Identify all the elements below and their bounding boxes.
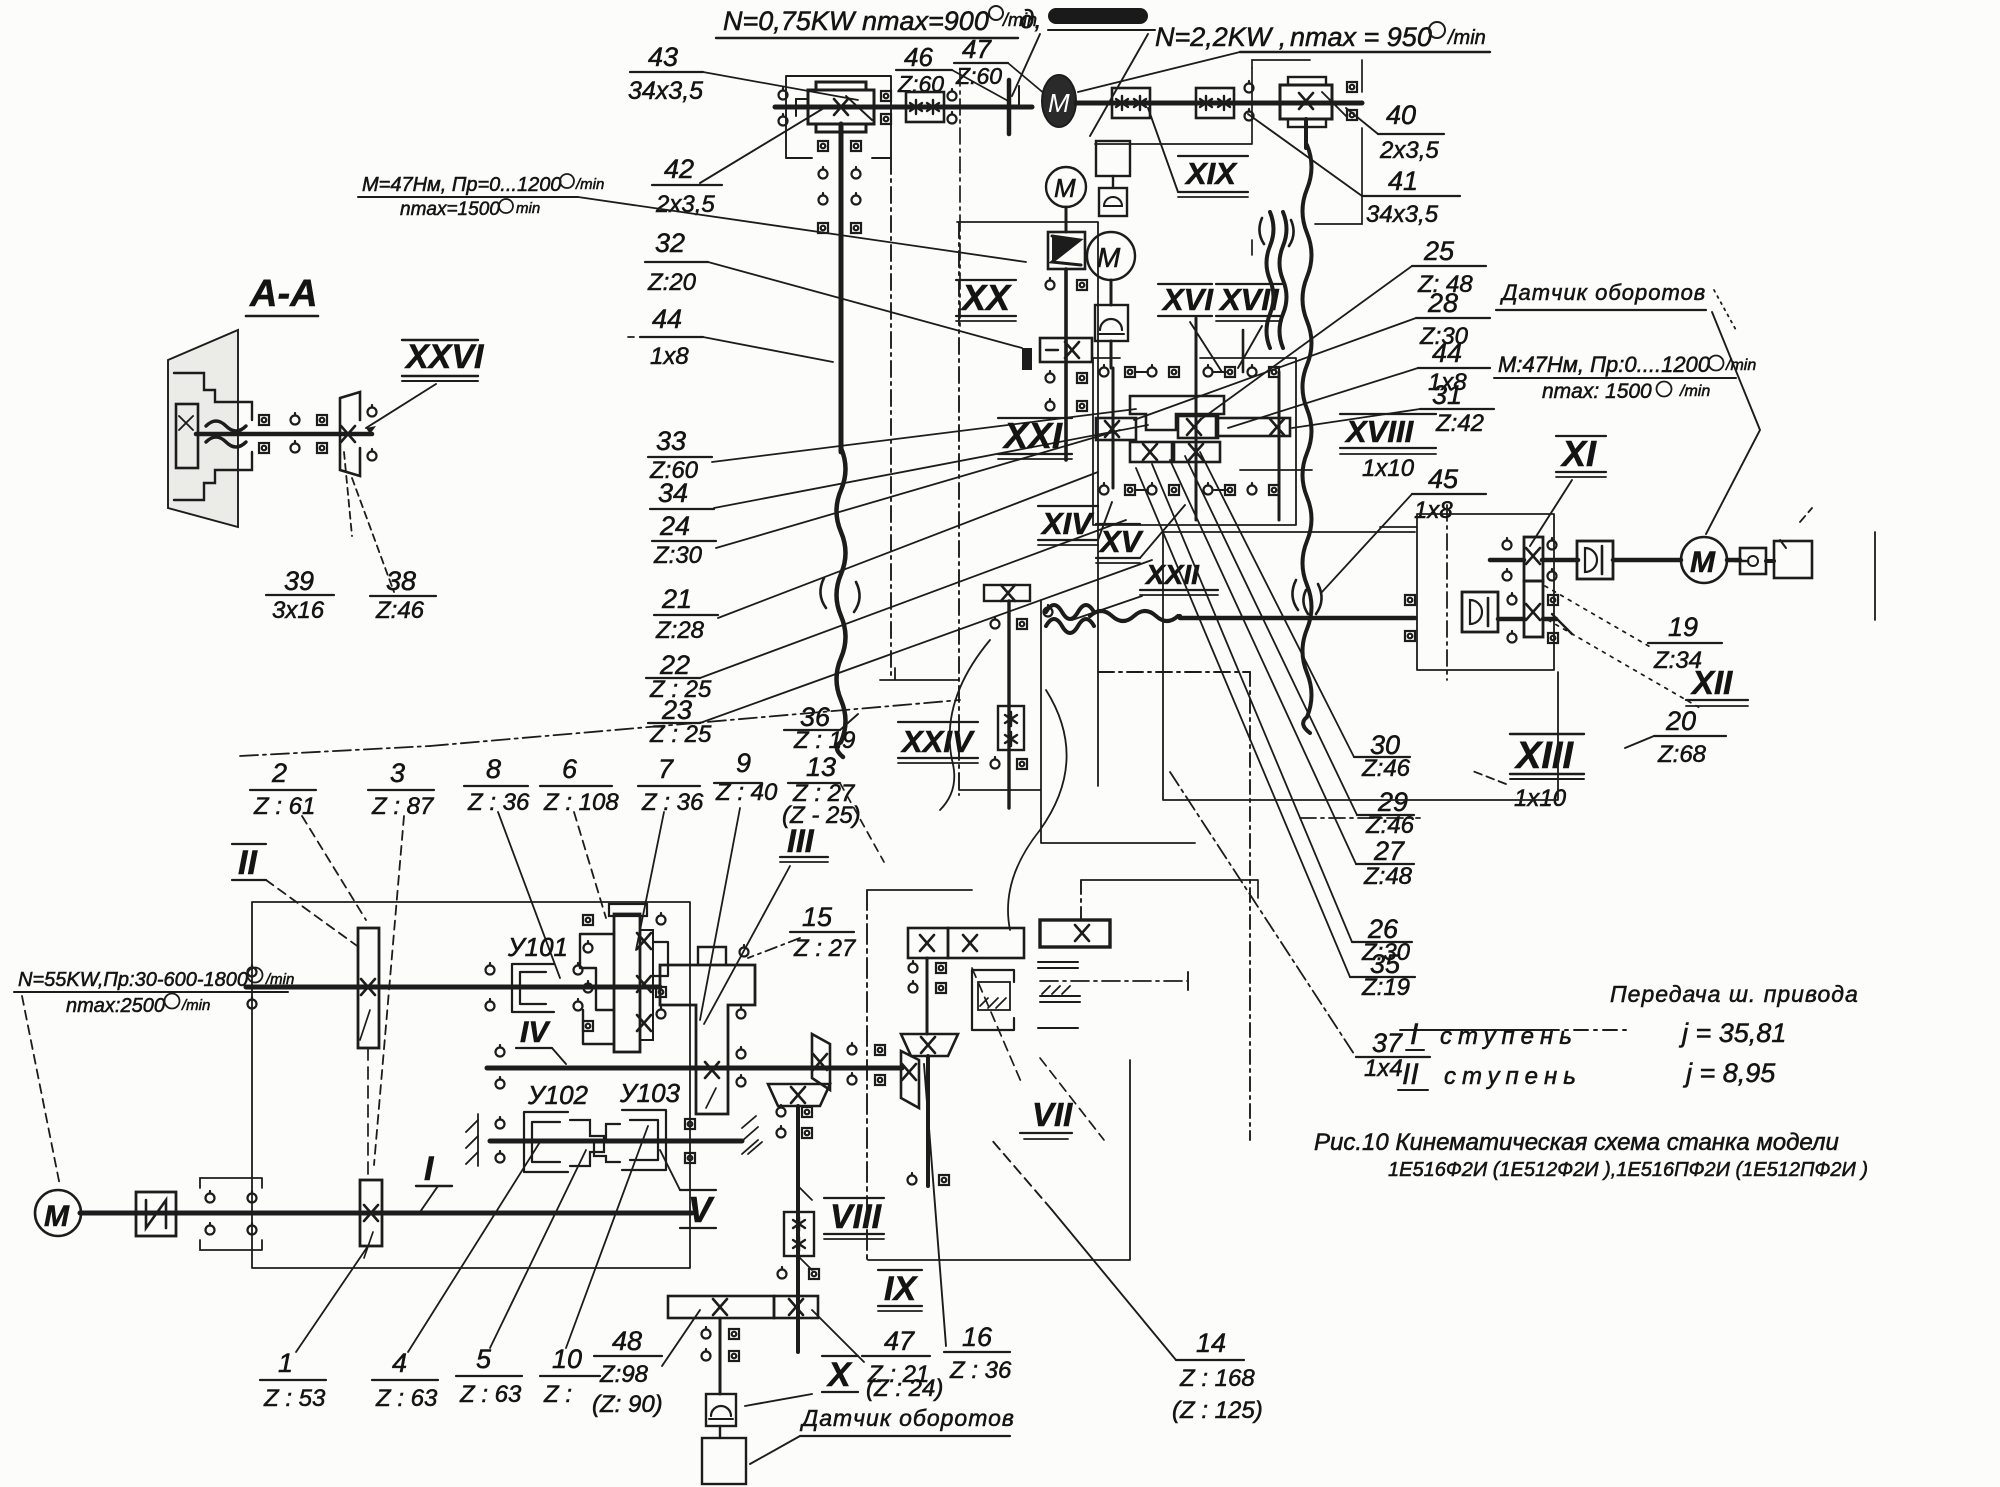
end box bbox=[1774, 541, 1812, 578]
square box below shaft bbox=[1096, 141, 1130, 176]
label 46/Z:60 bbox=[897, 42, 944, 97]
M motor outline circle left bbox=[1046, 167, 1086, 207]
svg-text:Датчик оборотов: Датчик оборотов bbox=[799, 1405, 1015, 1431]
motor M filled ellipse bbox=[1042, 75, 1076, 127]
coupling on VIII bbox=[784, 1212, 814, 1256]
sensor box small bbox=[1099, 188, 1127, 216]
svg-text:43: 43 bbox=[648, 42, 678, 72]
bearings on I bbox=[206, 1191, 215, 1203]
shaft III horizontal bbox=[700, 1066, 902, 1071]
housing thin box around 2.2kw unit bbox=[1252, 60, 1362, 255]
svg-text:N=2,2KW ,: N=2,2KW , bbox=[1155, 22, 1286, 52]
M=47Hm right text bbox=[1498, 352, 1756, 403]
svg-text:Передача ш. привода: Передача ш. привода bbox=[1610, 981, 1859, 1007]
svg-text:37: 37 bbox=[1372, 1028, 1403, 1058]
svg-text:A-A: A-A bbox=[249, 273, 318, 315]
long leader from M=47 text bbox=[578, 197, 1026, 262]
coupling asterisk box 46 bbox=[906, 92, 944, 122]
svg-text:Z:48: Z:48 bbox=[1363, 863, 1413, 890]
svg-text:M=47Hм, Пр=0...1200: M=47Hм, Пр=0...1200 bbox=[362, 174, 561, 196]
XVI XVII labels bbox=[1161, 282, 1280, 317]
text N=0,75KW nmax=900/min bbox=[723, 6, 1037, 36]
svg-text:У101: У101 bbox=[507, 932, 568, 962]
svg-text:nmax=1500: nmax=1500 bbox=[400, 199, 500, 220]
label 48 bbox=[592, 1326, 663, 1418]
svg-text:41: 41 bbox=[1388, 166, 1418, 196]
Датчик оборотов bottom text bbox=[799, 1405, 1015, 1431]
label 39/3x16 bbox=[272, 566, 325, 624]
coupling asterisk box 2 bbox=[1196, 88, 1234, 118]
svg-text:(Z: 90): (Z: 90) bbox=[592, 1391, 663, 1418]
svg-text:1x10: 1x10 bbox=[1362, 455, 1415, 482]
label power text top bbox=[358, 6, 1152, 757]
svg-text:Z : 36: Z : 36 bbox=[641, 789, 704, 816]
label M=47Nm top-left bbox=[362, 174, 604, 220]
leader to sensor bbox=[745, 1394, 812, 1406]
wall bar 47 bbox=[1007, 80, 1012, 134]
svg-text:ступень: ступень bbox=[1440, 1023, 1578, 1050]
label 30/Z:46 bbox=[1361, 730, 1411, 782]
gear 2 on shaft II bbox=[358, 928, 379, 1048]
У102 bbox=[527, 1080, 589, 1110]
svg-text:21: 21 bbox=[661, 584, 692, 614]
bearings right on II bbox=[486, 963, 495, 975]
label 47 bbox=[866, 1326, 943, 1402]
shaft XXIV vertical bbox=[1007, 601, 1010, 808]
shaft below brake bbox=[1064, 269, 1068, 460]
svg-text:31: 31 bbox=[1432, 380, 1462, 410]
svg-text:M:47Hм, Пр:0....1200: M:47Hм, Пр:0....1200 bbox=[1498, 352, 1711, 377]
motor M bbox=[35, 1190, 81, 1236]
leader from датчик text top bbox=[1714, 290, 1736, 330]
leader 47 bbox=[1008, 63, 1046, 95]
svg-text:У102: У102 bbox=[527, 1080, 589, 1110]
label 41/34x3,5 bbox=[1366, 166, 1439, 228]
svg-text:Z:20: Z:20 bbox=[647, 269, 697, 296]
svg-text:/min: /min bbox=[1679, 383, 1710, 400]
bearing rows on vertical shaft bbox=[818, 141, 828, 151]
svg-text:6: 6 bbox=[562, 754, 578, 784]
shaft 0.75kw horizontal bbox=[775, 105, 1032, 110]
shaft XII long bbox=[1090, 611, 1180, 621]
leader dashes from labels bbox=[266, 880, 360, 948]
gear 1 on shaft I bbox=[360, 1180, 382, 1246]
svg-text:V: V bbox=[688, 1189, 715, 1230]
long dash-dot diagonal through center bbox=[430, 700, 960, 746]
svg-text:47: 47 bbox=[884, 1326, 915, 1356]
svg-text:33: 33 bbox=[656, 426, 686, 456]
svg-text:nmax=900: nmax=900 bbox=[862, 6, 989, 36]
gear B bbox=[1096, 418, 1136, 440]
leaders from cluster down-right (to 30,29,27,26 labels) bbox=[1200, 452, 1354, 757]
svg-text:(Z : 125): (Z : 125) bbox=[1172, 1397, 1263, 1424]
bottom labels 1 4 5 10 bbox=[263, 1344, 582, 1412]
I label bbox=[424, 1150, 435, 1188]
T-gear block on III/IV bbox=[660, 965, 755, 1114]
bearing pair right of gear bbox=[881, 91, 891, 101]
XXI label bbox=[1002, 415, 1063, 456]
svg-text:Z:68: Z:68 bbox=[1657, 741, 1707, 768]
M motor circle 2 bbox=[1087, 232, 1135, 280]
label 16 bbox=[949, 1322, 1012, 1384]
big curved lines around XXIV bbox=[1008, 690, 1067, 930]
svg-text:28: 28 bbox=[1427, 288, 1458, 318]
svg-text:Z : 27: Z : 27 bbox=[793, 935, 857, 962]
X label bbox=[826, 1356, 853, 1394]
svg-text:19: 19 bbox=[1668, 612, 1698, 642]
svg-text:1: 1 bbox=[278, 1348, 293, 1378]
svg-text:Z:46: Z:46 bbox=[1361, 755, 1411, 782]
svg-text:4: 4 bbox=[392, 1348, 407, 1378]
svg-text:j = 35,81: j = 35,81 bbox=[1678, 1018, 1786, 1048]
V label bbox=[688, 1189, 715, 1230]
second gear bar thick bbox=[1040, 920, 1110, 947]
label 29/Z:46 bbox=[1365, 787, 1415, 839]
svg-text:8: 8 bbox=[486, 754, 501, 784]
svg-text:46: 46 bbox=[904, 42, 933, 72]
shaft A-A bbox=[196, 432, 372, 437]
У101 bbox=[507, 932, 568, 962]
svg-text:2x3,5: 2x3,5 bbox=[1379, 137, 1439, 164]
DI box on XII bbox=[1462, 592, 1498, 632]
svg-text:Рис.10 Кинематическая схема: Рис.10 Кинематическая схема станка модел… bbox=[1314, 1129, 1839, 1156]
leader XXVI bbox=[366, 384, 436, 428]
motor XI bbox=[1681, 537, 1727, 583]
svg-text:15: 15 bbox=[802, 902, 833, 932]
svg-text:Z : 53: Z : 53 bbox=[263, 1385, 326, 1412]
VIII label bbox=[830, 1198, 883, 1236]
svg-text:/min: /min bbox=[575, 176, 604, 193]
svg-text:XVI: XVI bbox=[1161, 282, 1214, 317]
svg-text:I: I bbox=[1410, 1018, 1418, 1051]
svg-text:M: M bbox=[1097, 242, 1121, 273]
svg-text:XII: XII bbox=[1690, 664, 1733, 701]
svg-text:14: 14 bbox=[1196, 1328, 1226, 1358]
top banner датчик оборотов (smudged) bbox=[1020, 4, 1042, 34]
svg-text:M: M bbox=[44, 1200, 70, 1233]
svg-text:3: 3 bbox=[390, 758, 405, 788]
svg-text:XI: XI bbox=[1560, 433, 1597, 474]
long line right of 37 bbox=[1400, 1029, 1545, 1031]
labels row top bbox=[253, 748, 861, 962]
svg-text:XV: XV bbox=[1098, 524, 1144, 559]
svg-text:min: min bbox=[516, 200, 540, 217]
XIII label bbox=[1514, 735, 1574, 777]
wavy shaft 44 lower part bbox=[837, 448, 846, 757]
svg-text:7: 7 bbox=[658, 754, 674, 784]
dashed leader 38 bbox=[352, 478, 394, 592]
svg-text:N=55KW,Пр:30-600-1800: N=55KW,Пр:30-600-1800 bbox=[18, 969, 248, 991]
label 44/1x8 bbox=[650, 304, 689, 370]
wavy coupling on shaft bbox=[206, 421, 246, 431]
sensor box on chain 2 bbox=[1095, 305, 1128, 341]
title Рис.10 bbox=[1314, 1129, 1868, 1181]
svg-text:II: II bbox=[238, 844, 258, 882]
long wavy chain right bbox=[1303, 145, 1312, 733]
A-A title bbox=[249, 273, 318, 315]
coupling И box bbox=[136, 1192, 176, 1236]
leader from text to motor bbox=[1078, 52, 1240, 92]
dash-dot long horizontal bbox=[1040, 980, 1188, 982]
gear bar X bbox=[668, 1296, 774, 1318]
label 28/Z:30 bbox=[1419, 288, 1469, 350]
svg-text:д,: д, bbox=[1020, 4, 1042, 34]
label 35/Z:19 bbox=[1361, 949, 1410, 1001]
svg-text:XXII: XXII bbox=[1144, 559, 1200, 590]
XXIV label bbox=[900, 724, 975, 759]
label 19/Z:34 bbox=[1653, 612, 1702, 674]
brake box with diagonal bbox=[1048, 232, 1085, 269]
small coupling bbox=[1740, 548, 1766, 574]
XIV label bbox=[1040, 506, 1094, 541]
leaders from XVI XVII down bbox=[1190, 322, 1222, 372]
label 47/Z:60 bbox=[955, 34, 1002, 89]
chuck body trapezoid bbox=[168, 330, 238, 527]
leaders fanning right from label column bbox=[712, 409, 1136, 462]
svg-text:III: III bbox=[787, 823, 815, 859]
bearing pair right of У101 bbox=[574, 963, 583, 975]
svg-text:24: 24 bbox=[659, 511, 690, 541]
svg-text:XVIII: XVIII bbox=[1344, 414, 1415, 449]
svg-text:34x3,5: 34x3,5 bbox=[628, 77, 703, 105]
svg-text:44: 44 bbox=[652, 304, 682, 334]
XXVI label bbox=[404, 338, 485, 376]
DI box on XI bbox=[1577, 541, 1613, 579]
XIX label bbox=[1184, 156, 1238, 191]
label 20/Z:68 bbox=[1657, 706, 1707, 768]
shaft IV bbox=[487, 1066, 700, 1071]
svg-text:Z :: Z : bbox=[543, 1381, 572, 1408]
gear 38 on A-A bbox=[340, 392, 360, 476]
label 34 bbox=[658, 478, 688, 508]
svg-text:I: I bbox=[424, 1150, 435, 1188]
svg-text:42: 42 bbox=[664, 154, 694, 184]
II label bbox=[238, 844, 258, 882]
svg-text:II: II bbox=[1402, 1058, 1419, 1091]
label 26/Z:30 bbox=[1361, 914, 1411, 966]
shaft VIII vertical bbox=[796, 1106, 800, 1352]
svg-text:Датчик оборотов: Датчик оборотов bbox=[1499, 280, 1706, 305]
svg-text:Z:30: Z:30 bbox=[653, 542, 703, 569]
housing bottom-left bbox=[252, 902, 690, 1268]
gear bar on left chain bbox=[1040, 338, 1092, 362]
svg-text:ступень: ступень bbox=[1444, 1063, 1582, 1090]
label 31/Z:42 bbox=[1432, 380, 1484, 437]
XXIII label bbox=[1144, 559, 1200, 590]
XII label bbox=[1690, 664, 1733, 701]
shaft VII vertical bbox=[926, 1056, 930, 1186]
cluster above IV : triple gear block 6-7-8 bbox=[614, 914, 640, 1052]
label 36/Z:19 bbox=[793, 702, 855, 754]
XX label bbox=[960, 277, 1012, 318]
svg-text:10: 10 bbox=[552, 1344, 582, 1374]
label 40/2x3,5 bbox=[1379, 100, 1439, 164]
N=55KW text bbox=[18, 969, 294, 1017]
svg-text:20: 20 bbox=[1665, 706, 1696, 736]
label 42/2x3,5 bbox=[655, 154, 715, 218]
T gear block top bbox=[1130, 396, 1224, 430]
svg-text:У103: У103 bbox=[619, 1078, 681, 1108]
diag dash leaders in this zone bbox=[972, 968, 1022, 1084]
svg-text:48: 48 bbox=[612, 1326, 642, 1356]
label 43/34x3,5 bbox=[628, 42, 703, 105]
housing XI/XII bbox=[1380, 514, 1554, 670]
svg-text:1Е516Ф2И (1Е512Ф2И ),1Е516ПФ: 1Е516Ф2И (1Е512Ф2И ),1Е516ПФ2И (1Е512ПФ2… bbox=[1388, 1159, 1868, 1181]
upper mech: gear bar XXIII area bbox=[908, 928, 948, 958]
hatched wall left of V bbox=[466, 1120, 478, 1164]
bearings on XII bbox=[1405, 595, 1415, 605]
svg-text:13: 13 bbox=[806, 752, 836, 782]
svg-text:nmax: 1500: nmax: 1500 bbox=[1542, 380, 1652, 403]
clutch jaws between bbox=[570, 1120, 604, 1166]
hatched rect right bbox=[1038, 962, 1080, 1028]
svg-text:XXIV: XXIV bbox=[900, 724, 975, 759]
svg-text:M: M bbox=[1048, 88, 1070, 118]
gear box right bbox=[1280, 85, 1332, 119]
dash-dot drop from housing bbox=[890, 158, 892, 675]
svg-text:45: 45 bbox=[1428, 464, 1459, 494]
svg-text:44: 44 bbox=[1432, 338, 1462, 368]
svg-text:1x4: 1x4 bbox=[1364, 1055, 1403, 1082]
sensor small box bbox=[706, 1394, 736, 1426]
svg-text:Z : 61: Z : 61 bbox=[253, 793, 315, 820]
label 38/Z:46 bbox=[375, 566, 425, 624]
label 25/Z:48 bbox=[1417, 236, 1473, 298]
svg-text:2: 2 bbox=[271, 758, 287, 788]
svg-text:32: 32 bbox=[655, 228, 685, 258]
svg-text:N=0,75KW: N=0,75KW bbox=[723, 6, 857, 36]
svg-text:2x3,5: 2x3,5 bbox=[655, 191, 715, 218]
label 44/1x8 right bbox=[1428, 338, 1467, 396]
svg-text:M: M bbox=[1054, 173, 1076, 203]
svg-text:X: X bbox=[826, 1356, 853, 1394]
svg-text:Z:28: Z:28 bbox=[655, 617, 705, 644]
label 45/1x8 bbox=[1414, 464, 1459, 524]
centerline gear 29 bbox=[1300, 817, 1420, 819]
IX label bbox=[884, 1270, 918, 1308]
small stub at x1025 y355 bbox=[1022, 348, 1032, 370]
bearing right bbox=[948, 89, 957, 101]
dashed link gear2-gear1 bbox=[367, 1048, 369, 1180]
датчик box bottom bbox=[702, 1438, 746, 1484]
svg-text:Z : 63: Z : 63 bbox=[459, 1381, 522, 1408]
svg-text:Z : 63: Z : 63 bbox=[375, 1385, 438, 1412]
coupling box on XXIV bbox=[998, 706, 1024, 750]
svg-text:XIII: XIII bbox=[1514, 735, 1574, 777]
gear cluster housing bbox=[1093, 358, 1296, 525]
bearings on A-A shaft bbox=[259, 415, 269, 425]
gear E bbox=[1130, 442, 1172, 462]
label 37/1x4 bbox=[1364, 1028, 1403, 1082]
leader dashes from gear to 19 label bbox=[1545, 586, 1652, 648]
У103 bbox=[619, 1078, 681, 1108]
label 27/Z:48 bbox=[1363, 836, 1413, 890]
label 14 bbox=[1172, 1328, 1263, 1424]
XV label bbox=[1098, 524, 1144, 559]
svg-text:1x8: 1x8 bbox=[650, 343, 689, 370]
svg-text:M: M bbox=[1690, 546, 1716, 579]
svg-text:XXI: XXI bbox=[1002, 415, 1063, 456]
bottom bearing row bbox=[1100, 483, 1109, 495]
double wavy chain left bbox=[1267, 212, 1274, 348]
svg-text:VIII: VIII bbox=[830, 1198, 883, 1236]
svg-text:Z : 36: Z : 36 bbox=[949, 1357, 1012, 1384]
svg-text:40: 40 bbox=[1386, 100, 1416, 130]
big right housing bottom bbox=[1163, 532, 1875, 800]
label 22/Z:25 bbox=[649, 650, 712, 703]
svg-text:IV: IV bbox=[520, 1016, 551, 1049]
svg-text:/min: /min bbox=[181, 997, 210, 1014]
svg-text:XIV: XIV bbox=[1040, 506, 1094, 541]
svg-text:3x16: 3x16 bbox=[272, 597, 325, 624]
gear D long bbox=[1216, 418, 1290, 436]
bevel pair at VIII bbox=[768, 1084, 830, 1106]
oil flame marks on shaft 44 bbox=[820, 578, 859, 612]
Датчик оборотов text right bbox=[1499, 280, 1706, 305]
svg-text:16: 16 bbox=[962, 1322, 993, 1352]
III label bbox=[787, 823, 815, 859]
IV label bbox=[520, 1016, 551, 1049]
gear C bbox=[1178, 416, 1218, 438]
XVIII label bbox=[1344, 414, 1415, 449]
svg-text:9: 9 bbox=[736, 748, 751, 778]
svg-text:XX: XX bbox=[960, 277, 1012, 318]
vertical shaft 44 down bbox=[839, 124, 844, 452]
svg-text:Z:42: Z:42 bbox=[1435, 410, 1484, 437]
Передача ш. привода bbox=[1402, 981, 1859, 1091]
XI label bbox=[1560, 433, 1597, 474]
shaft I bbox=[80, 1211, 692, 1216]
shaft X vertical down bbox=[719, 1318, 722, 1394]
top bearing row bbox=[1100, 365, 1109, 377]
svg-text:XXVI: XXVI bbox=[404, 338, 485, 376]
chuck inner details bbox=[174, 373, 252, 420]
svg-text:IX: IX bbox=[884, 1270, 918, 1308]
vertical shafts in cluster bbox=[1112, 368, 1115, 488]
central housing box bbox=[880, 222, 1195, 843]
C bracket with hatches bbox=[972, 970, 1014, 1030]
svg-text:j = 8,95: j = 8,95 bbox=[1682, 1058, 1776, 1088]
label 21/Z:28 bbox=[655, 584, 705, 644]
shaft II bbox=[246, 985, 660, 990]
bearing pair left of gear bbox=[779, 88, 788, 100]
gear F bbox=[1174, 442, 1220, 462]
svg-text:Z : 168: Z : 168 bbox=[1179, 1365, 1255, 1392]
svg-text:/min: /min bbox=[1446, 27, 1486, 49]
VII label bbox=[1032, 1096, 1073, 1133]
label 24/Z:30 bbox=[653, 511, 703, 569]
bearings bbox=[1245, 81, 1254, 93]
double gear XI/XII bbox=[1524, 537, 1543, 581]
bevel pair VII bbox=[901, 1034, 958, 1056]
svg-text:nmax = 950: nmax = 950 bbox=[1290, 22, 1432, 52]
housing verticals bottom-center bbox=[868, 890, 1130, 1260]
shaft XXIV gear bar bbox=[984, 585, 1030, 601]
svg-text:Z:46: Z:46 bbox=[375, 597, 425, 624]
svg-text:27: 27 bbox=[1373, 836, 1405, 866]
shaft V bbox=[490, 1139, 742, 1144]
text N=2,2KW nmax=950/min bbox=[1155, 22, 1486, 52]
bearings right bbox=[1347, 82, 1357, 92]
shaft 2.2kw bbox=[1076, 101, 1362, 106]
svg-text:Z : 87: Z : 87 bbox=[371, 793, 435, 820]
svg-text:47: 47 bbox=[962, 34, 992, 64]
svg-text:34: 34 bbox=[658, 478, 688, 508]
svg-text:39: 39 bbox=[284, 566, 314, 596]
wavy start of shaft XII bbox=[1046, 605, 1094, 619]
coupling asterisk box 1 bbox=[1112, 88, 1150, 118]
leader 43 bbox=[703, 72, 858, 100]
